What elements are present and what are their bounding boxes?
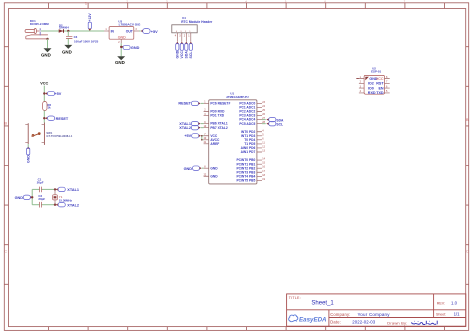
right pin names	[237, 102, 256, 183]
right pin numbers	[262, 101, 265, 181]
pin 4	[176, 33, 178, 42]
TITLEBLOCK	[287, 294, 466, 326]
svg-text:RESET: RESET	[178, 102, 191, 106]
wire jack to ground	[47, 39, 49, 48]
net flag XTAL2	[56, 203, 79, 208]
svg-text:GT-TC075B-H038-L1: GT-TC075B-H038-L1	[46, 134, 72, 138]
POWER	[25, 13, 158, 66]
junction +5V tap	[43, 92, 45, 94]
net flag GND (SW1)	[26, 147, 30, 163]
wire SW1 to gnd flag	[27, 144, 29, 148]
svg-text:C3: C3	[74, 35, 78, 39]
junction xtal bottom	[54, 204, 56, 206]
regulator U3	[104, 27, 139, 44]
module U2 body	[364, 75, 384, 94]
net flag RESET (node)	[45, 116, 69, 121]
svg-text:XTAL1: XTAL1	[67, 188, 79, 192]
left pin names	[368, 77, 378, 95]
svg-text:+12V: +12V	[88, 13, 92, 22]
svg-text:AREF: AREF	[210, 142, 219, 146]
svg-text:SCL: SCL	[189, 51, 193, 59]
wire SDA	[262, 119, 266, 121]
svg-text:Drawn By:: Drawn By:	[387, 321, 407, 326]
svg-text:RXD: RXD	[368, 91, 376, 95]
pin 3 OUT	[134, 30, 139, 32]
crystal Y1	[53, 189, 58, 204]
svg-text:GND: GND	[62, 49, 72, 54]
svg-text:RESET: RESET	[56, 117, 69, 121]
wire top rail right	[42, 188, 56, 190]
svg-text:RST: RST	[376, 82, 384, 86]
right pin stubs	[257, 103, 262, 180]
junction RESET tap	[43, 117, 45, 119]
wire left vertical	[31, 189, 33, 204]
svg-text:ESP-01: ESP-01	[371, 70, 381, 74]
svg-text:1.0: 1.0	[451, 301, 458, 306]
faint zone numbers above ticks	[126, 0, 405, 4]
net flag SCL	[266, 121, 283, 126]
svg-text:Sheet:: Sheet:	[436, 312, 446, 316]
svg-text:15.36MHz: 15.36MHz	[59, 198, 73, 202]
net flag GND (regulator)	[121, 45, 139, 50]
svg-text:ATMEGA328P-PU: ATMEGA328P-PU	[226, 95, 248, 99]
svg-text:20pF: 20pF	[37, 181, 44, 185]
svg-text:U1: U1	[230, 92, 234, 96]
net flag +5V (mcu vcc)	[184, 134, 203, 139]
MCU	[178, 92, 284, 184]
pin 3	[181, 33, 183, 42]
connector DC1	[25, 28, 48, 39]
svg-text:DC005-2.0MM: DC005-2.0MM	[30, 22, 49, 26]
ground GND (jack)	[41, 48, 52, 57]
svg-text:1k: 1k	[48, 106, 52, 110]
svg-text:1/1: 1/1	[454, 312, 461, 317]
U4 pin numbers inside	[176, 31, 192, 33]
svg-text:100uF 100V 16*25: 100uF 100V 16*25	[74, 39, 99, 43]
junction gnd tap	[31, 196, 33, 198]
svg-text:TXD: TXD	[376, 91, 384, 95]
svg-text:Company:: Company:	[330, 312, 350, 317]
net flag XTAL1	[56, 187, 79, 192]
net flag GND (mcu pin8)	[184, 166, 204, 171]
bottom edge ticks	[49, 327, 445, 331]
drawn-by value (arabic signature)	[412, 321, 437, 325]
svg-text:PCINT5 PB5: PCINT5 PB5	[237, 178, 256, 182]
svg-text:1: 1	[85, 2, 87, 6]
net flag VCC (U4 pin3)	[180, 42, 184, 59]
wire vcc-avcc tie	[201, 135, 204, 141]
svg-text:2022-02-03: 2022-02-03	[352, 319, 375, 324]
svg-text:C: C	[4, 250, 7, 254]
wire OUT to +5V	[139, 30, 141, 32]
svg-text:REV:: REV:	[437, 301, 445, 305]
RESETCOL	[25, 82, 72, 163]
left pin numbers	[360, 76, 362, 93]
svg-text:C: C	[466, 250, 469, 254]
svg-text:+5V: +5V	[151, 30, 158, 34]
header U4 body	[172, 25, 197, 33]
svg-text:PD1 TXD: PD1 TXD	[210, 114, 224, 118]
svg-text:VCC: VCC	[376, 77, 384, 81]
wire main 12V rail	[41, 30, 104, 32]
svg-text:GND: GND	[115, 60, 125, 65]
svg-text:B: B	[4, 122, 7, 126]
pin 2 GND	[120, 39, 122, 43]
svg-text:Date:: Date:	[330, 319, 341, 324]
ground GND (C3)	[62, 45, 72, 55]
svg-text:GND: GND	[41, 53, 51, 58]
pin 2	[185, 33, 187, 42]
capacitor C3	[66, 36, 72, 38]
EasyEDA logo cloud	[289, 315, 298, 322]
svg-text:GND: GND	[118, 35, 126, 39]
svg-text:GND: GND	[184, 167, 193, 171]
svg-text:TITLE:: TITLE:	[289, 296, 301, 300]
wire SCL	[262, 123, 266, 125]
net flag GND (xtal)	[15, 195, 33, 200]
net flag SDA (U4 pin2)	[184, 42, 188, 59]
right edge ticks	[466, 47, 469, 285]
left pin names	[210, 102, 230, 179]
net flag +5V (regulator out)	[141, 29, 159, 34]
svg-text:GND: GND	[210, 174, 218, 178]
capacitor C1	[40, 187, 42, 193]
diode D2	[59, 29, 64, 33]
left pin stubs	[359, 79, 364, 93]
svg-text:SCL: SCL	[276, 122, 283, 126]
no-connect dash pin1	[356, 78, 359, 80]
pin 1	[190, 33, 192, 42]
svg-text:+5V: +5V	[54, 92, 61, 96]
mcu U1 body	[209, 100, 257, 184]
right pin numbers	[386, 76, 388, 93]
left edge ticks	[4, 47, 8, 285]
svg-text:GND: GND	[26, 155, 30, 163]
net flag XTAL1 (mcu pin9)	[179, 121, 203, 126]
wire R2 to SW1	[43, 111, 45, 123]
svg-text:20pF: 20pF	[38, 197, 45, 201]
svg-text:PB7 XTAL2: PB7 XTAL2	[210, 126, 227, 130]
net flag GND (U4 pin4)	[175, 42, 179, 59]
net flag RESET (mcu pin1)	[178, 101, 203, 106]
net flag +12V	[88, 13, 92, 31]
svg-text:EasyEDA: EasyEDA	[299, 317, 327, 324]
svg-text:PC5 ADC5: PC5 ADC5	[239, 122, 255, 126]
svg-text:IO2: IO2	[368, 82, 374, 86]
RTCHDR	[172, 16, 213, 59]
svg-text:PC6 RESET#: PC6 RESET#	[210, 102, 230, 106]
junction C3 tap	[67, 30, 69, 32]
svg-text:XTAL2: XTAL2	[67, 203, 79, 207]
net flag SDA	[266, 117, 284, 122]
svg-text:AIN1 PD7: AIN1 PD7	[241, 150, 256, 154]
svg-text:OUT: OUT	[126, 29, 134, 33]
svg-text:XTAL2: XTAL2	[179, 126, 191, 130]
svg-text:RTC Module Header: RTC Module Header	[181, 20, 213, 24]
net flag +5V (vcc node)	[45, 91, 62, 96]
svg-text:1N4004: 1N4004	[59, 25, 69, 29]
svg-text:GND: GND	[15, 196, 24, 200]
svg-text:+5V: +5V	[184, 134, 191, 138]
svg-text:VCC: VCC	[180, 51, 184, 59]
wire top rail left	[32, 188, 39, 190]
XTALSEC	[15, 178, 79, 208]
junction U3 gnd	[120, 46, 122, 48]
net flag XTAL2 (mcu pin10)	[179, 125, 203, 130]
svg-text:L7805ACV O/G: L7805ACV O/G	[119, 23, 141, 27]
svg-text:GND: GND	[131, 46, 140, 50]
ESP	[356, 67, 389, 96]
left pin stubs	[204, 103, 209, 176]
svg-text:Your Company: Your Company	[358, 312, 391, 317]
svg-text:VCC: VCC	[40, 82, 48, 86]
capacitor C2	[40, 202, 42, 208]
junction xtal top	[54, 188, 56, 190]
top edge ticks	[49, 3, 445, 9]
svg-text:Sheet_1: Sheet_1	[311, 301, 334, 307]
wire C3 tap down	[67, 31, 69, 36]
pin 1 IN	[104, 30, 109, 32]
junction jack sleeve	[46, 38, 48, 40]
switch SW1	[25, 123, 44, 145]
wire VCC to R2	[43, 86, 45, 102]
left pin numbers	[204, 101, 207, 177]
svg-text:GND: GND	[210, 166, 218, 170]
title block grid lines	[287, 294, 466, 326]
wire bottom rail left	[32, 204, 39, 206]
wire C3 to ground	[67, 38, 69, 45]
svg-text:GND: GND	[175, 50, 179, 58]
svg-text:SDA: SDA	[184, 51, 188, 59]
svg-text:EN: EN	[378, 86, 383, 90]
wire bottom rail right	[42, 204, 56, 206]
pin1 marker	[365, 77, 369, 81]
right pin stubs	[385, 79, 390, 93]
resistor R2	[43, 102, 47, 111]
ground GND (U3)	[115, 56, 125, 65]
svg-text:IO0: IO0	[368, 86, 374, 90]
wire U3 GND down	[120, 43, 122, 56]
net flag SCL (U4 pin1)	[189, 42, 193, 59]
right pin names	[376, 77, 385, 95]
